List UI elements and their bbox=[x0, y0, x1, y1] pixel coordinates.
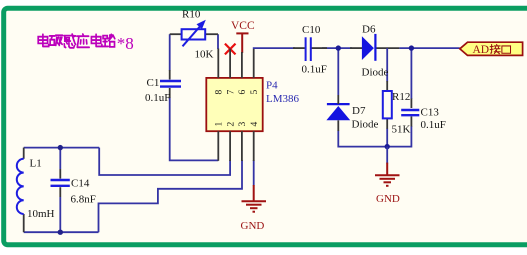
svg-text:L1: L1 bbox=[30, 157, 42, 169]
wire C14 stubs bbox=[59, 148, 61, 169]
svg-text:C14: C14 bbox=[71, 178, 90, 190]
wire D6 to AD port bbox=[375, 47, 399, 49]
capacitor C10 bbox=[293, 24, 327, 76]
pin 5 bbox=[253, 49, 255, 78]
title text 电磁感应电路*8 bbox=[38, 34, 134, 53]
pin 4 bbox=[253, 131, 255, 161]
svg-text:D7: D7 bbox=[352, 105, 366, 117]
inductor L1 bbox=[17, 157, 55, 220]
ground right bbox=[375, 147, 400, 205]
svg-text:10K: 10K bbox=[195, 49, 214, 61]
wire D7 branch vertical bbox=[337, 48, 339, 95]
svg-text:D6: D6 bbox=[362, 24, 376, 36]
svg-text:GND: GND bbox=[241, 220, 265, 232]
svg-text:4: 4 bbox=[250, 122, 260, 127]
svg-text:2: 2 bbox=[226, 122, 236, 127]
svg-text:10mH: 10mH bbox=[27, 208, 55, 220]
junction node at C13 branch bbox=[409, 45, 414, 50]
wire U1 pin 5 to C10 bbox=[254, 47, 295, 50]
svg-text:C1: C1 bbox=[147, 77, 160, 89]
wire R12 branch top bbox=[386, 48, 388, 81]
resistor R10 (potentiometer) bbox=[170, 9, 218, 61]
diode D7 bbox=[326, 95, 378, 131]
ground left under pin 4 bbox=[241, 185, 267, 232]
svg-text:C10: C10 bbox=[302, 24, 321, 36]
op-amp U1 LM386 body bbox=[206, 49, 299, 162]
wire U1 pin 3 stepped to loop bottom bbox=[99, 160, 243, 232]
svg-text:51K: 51K bbox=[392, 124, 411, 136]
svg-text:0.1uF: 0.1uF bbox=[302, 64, 327, 76]
svg-text:7: 7 bbox=[226, 90, 236, 95]
svg-text:Diode: Diode bbox=[352, 119, 379, 131]
svg-text:8: 8 bbox=[215, 90, 225, 95]
svg-text:1: 1 bbox=[215, 122, 225, 127]
port AD接口 bbox=[460, 42, 523, 56]
junction node C14 bottom bbox=[58, 230, 63, 235]
pin 3 bbox=[241, 131, 243, 161]
wire loop top L1 to corner bbox=[24, 147, 100, 149]
wire loop bottom bbox=[24, 231, 99, 233]
svg-text:Diode: Diode bbox=[362, 67, 389, 79]
wire C10 to D6 bbox=[322, 47, 352, 49]
pin 7 bbox=[229, 49, 231, 78]
svg-text:P4: P4 bbox=[266, 80, 278, 92]
power VCC bbox=[231, 20, 255, 53]
wire U1 pin4 to GND bbox=[253, 160, 255, 186]
pin 6 bbox=[241, 52, 243, 78]
svg-text:LM386: LM386 bbox=[266, 93, 300, 105]
svg-text:3: 3 bbox=[238, 122, 248, 127]
wire from R10 left pin down through C1 to U1 pin 1 bbox=[169, 34, 171, 70]
wire bottom bus D7 R12 C13 to GND bbox=[338, 126, 411, 147]
junction node at GND stem bbox=[385, 144, 390, 149]
pin 8 bbox=[217, 49, 219, 78]
svg-text:GND: GND bbox=[376, 193, 400, 205]
diode D6 bbox=[350, 24, 389, 79]
svg-text:R12: R12 bbox=[392, 91, 410, 103]
capacitor C14 bbox=[51, 178, 96, 206]
resistor R12 bbox=[383, 81, 411, 136]
svg-text:VCC: VCC bbox=[231, 20, 255, 32]
no-connect X on pin 7 bbox=[225, 44, 236, 55]
svg-text:6: 6 bbox=[238, 90, 248, 95]
wire U1 pin 2 to loop top bbox=[99, 148, 230, 175]
pin 2 bbox=[229, 131, 231, 161]
wire L1 body verticals bbox=[23, 148, 25, 159]
svg-text:C13: C13 bbox=[421, 107, 440, 119]
junction node C14 top bbox=[58, 145, 63, 150]
svg-text:AD: AD bbox=[473, 44, 490, 56]
svg-text:0.1uF: 0.1uF bbox=[421, 119, 446, 131]
capacitor C13 bbox=[401, 99, 446, 132]
junction node at D7 branch bbox=[336, 45, 341, 50]
svg-text:R10: R10 bbox=[182, 9, 201, 21]
svg-text:0.1uF: 0.1uF bbox=[145, 92, 170, 104]
wire C13 branch top bbox=[410, 48, 412, 99]
wire from R10 right pin down to U1 pin 8 bbox=[217, 34, 219, 49]
svg-text:5: 5 bbox=[250, 90, 260, 95]
svg-text:*8: *8 bbox=[117, 34, 134, 53]
pin 1 bbox=[217, 131, 219, 161]
capacitor C1 bbox=[145, 70, 181, 104]
svg-text:6.8nF: 6.8nF bbox=[71, 193, 96, 205]
